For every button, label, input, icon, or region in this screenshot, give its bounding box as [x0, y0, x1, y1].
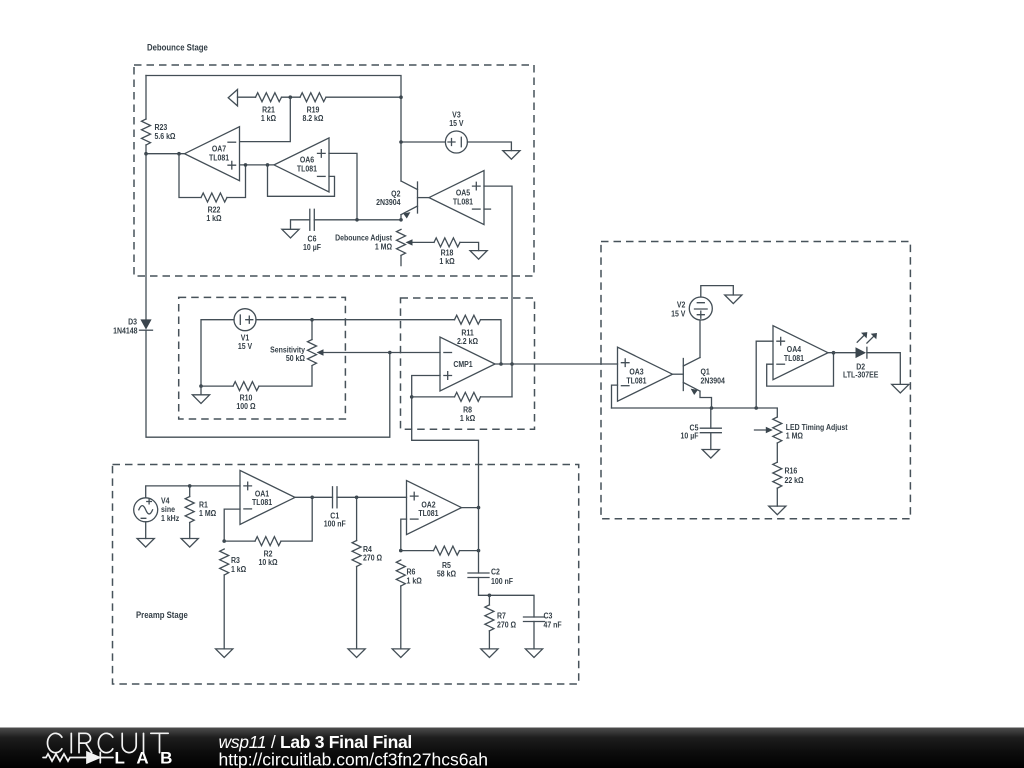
junction [399, 95, 403, 99]
wire [401, 141, 445, 143]
svg-text:2N3904: 2N3904 [376, 197, 401, 207]
svg-text:100 Ω: 100 Ω [236, 401, 255, 411]
junction [410, 395, 414, 399]
wire [710, 408, 712, 428]
svg-text:58 kΩ: 58 kΩ [437, 569, 456, 579]
resistor R22 [201, 193, 227, 223]
ground R1 [181, 539, 198, 548]
svg-text:Preamp Stage: Preamp Stage [136, 609, 188, 620]
junction OA7 output / R23 [144, 152, 148, 156]
svg-text:Debounce Stage: Debounce Stage [147, 42, 208, 53]
junction [488, 594, 492, 598]
wire R2 to OA1 output [281, 497, 312, 541]
dashed box Debounce Stage [134, 65, 534, 276]
resistor R19 [300, 93, 401, 123]
svg-text:270 Ω: 270 Ω [363, 553, 382, 563]
wire [256, 319, 455, 321]
wire D3 to comparator input [146, 330, 390, 437]
svg-text:LAB: LAB [115, 748, 184, 767]
dashed box Preamp Stage [113, 465, 579, 685]
wire OA4 + input [756, 341, 773, 408]
junction [310, 496, 314, 500]
svg-text:TL081: TL081 [297, 164, 318, 174]
junction [388, 351, 392, 355]
junction [477, 506, 481, 510]
wire V2 + to ground [701, 286, 734, 297]
wire V4 to OA1 + input [146, 486, 240, 498]
voltage source V1 [234, 309, 256, 351]
wire [179, 154, 201, 198]
wire OA2 - input [401, 519, 407, 551]
wire C2 to C3 [479, 578, 535, 618]
ground R3 [216, 649, 233, 658]
svg-text:C2: C2 [491, 567, 500, 577]
wire OA4 feedback [767, 353, 834, 386]
resistor R2 [224, 537, 281, 568]
wire OA2 output [462, 507, 479, 509]
wire R11 to output [481, 320, 502, 364]
wire CMP1 + input [412, 376, 440, 397]
svg-text:2.2 kΩ: 2.2 kΩ [457, 336, 478, 346]
junction [499, 362, 503, 366]
wire [481, 396, 513, 398]
svg-text:15 V: 15 V [238, 341, 253, 351]
wire OA5 - stub [484, 208, 491, 210]
op-amp OA6 [274, 138, 329, 192]
svg-text:TL081: TL081 [784, 353, 805, 363]
junction Q2 emitter node [399, 218, 403, 222]
svg-text:100 nF: 100 nF [324, 519, 346, 529]
svg-text:2N3904: 2N3904 [700, 376, 725, 386]
ground C5 [702, 450, 719, 459]
net flag [228, 90, 237, 106]
wire [240, 164, 274, 166]
transistor Q1 [673, 358, 726, 409]
resistor R10 [201, 382, 259, 412]
wire OA5 + input to CMP1 output [484, 186, 512, 397]
svg-text:TL081: TL081 [209, 153, 230, 163]
svg-text:5.6 kΩ: 5.6 kΩ [154, 131, 175, 141]
wire pot bottom stub [400, 256, 402, 266]
op-amp OA3 [618, 347, 673, 401]
wire [478, 508, 480, 573]
junction V3 / collector rail [399, 140, 403, 144]
junction [244, 163, 248, 167]
wire [460, 242, 479, 250]
dashed box LED stage [601, 242, 910, 519]
wire Q1 collector [699, 320, 701, 358]
junction [222, 539, 226, 543]
logo resistor-diode symbol [43, 752, 113, 763]
wire [282, 96, 301, 98]
wire [311, 320, 313, 340]
wire [145, 522, 147, 539]
resistor R7 [485, 595, 516, 649]
wire CMP1 output [495, 363, 618, 365]
wire OA6 + input to C6 node [329, 153, 357, 219]
resistor R23 [142, 76, 176, 154]
resistor R5 [401, 546, 479, 579]
svg-text:10 µF: 10 µF [303, 242, 321, 252]
wire OA7 output down to D3 [145, 154, 147, 320]
junction [355, 496, 359, 500]
op-amp OA2 [407, 481, 462, 535]
svg-text:22 kΩ: 22 kΩ [784, 475, 803, 485]
svg-text:TL081: TL081 [453, 197, 474, 207]
resistor R3 [220, 549, 247, 649]
svg-text:TL081: TL081 [626, 376, 647, 386]
junction [710, 406, 714, 410]
wire [227, 165, 246, 198]
CircuitLab logo CIRCUIT [47, 733, 168, 752]
svg-text:270 Ω: 270 Ω [497, 620, 516, 630]
svg-text:15 V: 15 V [449, 119, 464, 129]
ground R6 [392, 649, 409, 658]
wire top rail to Q2 collector [146, 76, 401, 182]
footer bar [0, 728, 1024, 768]
wire OA3 - input [612, 385, 618, 408]
wire [146, 153, 185, 155]
resistor R4 [352, 497, 382, 649]
resistor R8 [412, 392, 481, 423]
wire OA6 feedback [268, 165, 335, 196]
capacitor C5 [681, 423, 722, 441]
ground D2 [892, 384, 909, 393]
svg-text:8.2 kΩ: 8.2 kΩ [302, 113, 323, 123]
wire [533, 622, 535, 649]
junction [355, 218, 359, 222]
wire D2 to ground [867, 353, 900, 385]
svg-text:http://circuitlab.com/cf3fn27h: http://circuitlab.com/cf3fn27hcs6ah [219, 749, 488, 768]
junction [266, 163, 270, 167]
junction [510, 362, 514, 366]
transistor Q2 [376, 181, 429, 220]
resistor R11 [455, 315, 481, 346]
wire V1 - to ground node [201, 320, 234, 386]
ground R7 [481, 649, 498, 658]
svg-text:50 kΩ: 50 kΩ [286, 353, 305, 363]
svg-text:1 kHz: 1 kHz [161, 513, 179, 523]
ground C6 [282, 229, 299, 238]
wire [710, 433, 712, 450]
op-amp OA4 [773, 326, 828, 380]
svg-text:1 kΩ: 1 kΩ [231, 565, 246, 575]
voltage source V3 [445, 110, 467, 153]
ground V3 [503, 151, 520, 160]
resistor R18 [434, 238, 460, 266]
svg-text:15 V: 15 V [671, 309, 686, 319]
potentiometer Debounce Adjust [335, 229, 434, 255]
ground R4 [348, 649, 365, 658]
svg-text:1 kΩ: 1 kΩ [206, 213, 221, 223]
dashed box Sensitivity group [179, 297, 346, 419]
capacitor C2 [468, 567, 513, 586]
junction [289, 95, 293, 99]
capacitor C1 [324, 487, 346, 529]
junction [199, 384, 203, 388]
svg-text:10 µF: 10 µF [681, 431, 699, 441]
op-amp OA1 [240, 470, 295, 524]
junction [188, 484, 192, 488]
svg-text:1 MΩ: 1 MΩ [375, 242, 392, 252]
svg-text:1 kΩ: 1 kΩ [407, 576, 422, 586]
wire [259, 366, 312, 386]
ground R16 [769, 506, 786, 515]
wire [200, 386, 202, 395]
svg-text:1 kΩ: 1 kΩ [460, 413, 475, 423]
junction [399, 549, 403, 553]
svg-text:100 nF: 100 nF [491, 576, 513, 586]
junction [310, 318, 314, 322]
capacitor C6 [303, 209, 321, 252]
junction [754, 406, 758, 410]
svg-text:10 kΩ: 10 kΩ [258, 557, 277, 567]
svg-text:1N4148: 1N4148 [113, 326, 138, 336]
svg-text:CMP1: CMP1 [453, 359, 473, 369]
wire OA1 output [295, 496, 333, 498]
wire [238, 96, 256, 98]
potentiometer LED Timing Adjust [755, 417, 848, 443]
svg-text:TL081: TL081 [418, 509, 439, 519]
voltage source V2 [671, 297, 712, 320]
capacitor C3 [524, 611, 562, 630]
junction feedback [177, 152, 181, 156]
dashed box comparator group [401, 298, 535, 429]
ground R18 [470, 251, 487, 260]
wire OA1 - input [224, 509, 240, 541]
wire [291, 220, 310, 230]
ground V4 [137, 539, 154, 548]
potentiometer Sensitivity [270, 340, 440, 366]
svg-text:1 kΩ: 1 kΩ [439, 256, 454, 266]
resistor R1 [185, 486, 216, 539]
LED D2 [843, 332, 878, 380]
op-amp OA7 [185, 127, 240, 181]
voltage source V4 [134, 496, 180, 524]
resistor R16 [773, 462, 804, 506]
junction [477, 549, 481, 553]
wire [337, 496, 407, 498]
svg-text:1 MΩ: 1 MΩ [786, 431, 803, 441]
wire comparator input from preamp [412, 397, 479, 508]
wire [776, 443, 778, 462]
diode D3 [113, 317, 152, 336]
svg-text:LTL-307EE: LTL-307EE [843, 370, 878, 380]
wire [314, 219, 401, 221]
ground V2 [725, 295, 742, 304]
op-amp CMP1 [440, 337, 495, 391]
resistor R21 [256, 93, 282, 123]
wire to OA7 - input [240, 97, 290, 141]
svg-text:1 kΩ: 1 kΩ [261, 113, 276, 123]
resistor R6 [396, 560, 421, 649]
wire [467, 142, 511, 151]
ground V1 [192, 395, 209, 404]
junction [832, 351, 836, 355]
svg-text:1 MΩ: 1 MΩ [199, 508, 216, 518]
op-amp OA5 [429, 171, 484, 225]
svg-text:47 nF: 47 nF [544, 620, 562, 630]
wire emitter rail [612, 408, 778, 417]
ground C3 [525, 649, 542, 658]
svg-text:TL081: TL081 [252, 498, 273, 508]
wire OA4 output [828, 352, 856, 354]
